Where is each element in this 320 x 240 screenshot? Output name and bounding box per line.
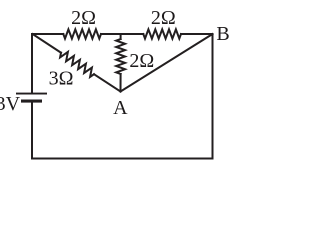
wire left lower (battery negative to bottom-left corner) — [31, 103, 33, 159]
svg-text:2Ω: 2Ω — [151, 7, 176, 29]
wire diagonal from top-left corner to 3ohm resistor — [33, 34, 62, 53]
battery V1 positive plate (long) — [16, 93, 47, 95]
battery V1 negative plate (short thick) — [21, 100, 42, 103]
wire left upper (top-left corner to battery positive) — [31, 34, 34, 93]
wire right side — [212, 34, 214, 159]
wire diagonal 3ohm resistor to node A — [94, 74, 121, 91]
svg-text:2Ω: 2Ω — [129, 50, 154, 72]
wire top-left segment — [33, 33, 64, 35]
wire top-right segment to corner B — [181, 33, 213, 35]
svg-text:2Ω: 2Ω — [71, 7, 96, 29]
wire top-middle segment — [101, 33, 143, 35]
svg-text:3V: 3V — [0, 93, 21, 115]
svg-text:A: A — [113, 97, 128, 119]
wire diagonal node A to corner B — [121, 34, 213, 92]
svg-text:3Ω: 3Ω — [49, 68, 74, 90]
resistor R3 2ohm middle vertical: top lead — [120, 34, 122, 39]
resistor R1 2ohm top-left zigzag — [63, 29, 101, 38]
resistor R3 zigzag — [116, 39, 125, 74]
svg-text:B: B — [216, 23, 229, 45]
resistor R2 2ohm top-right zigzag — [143, 29, 181, 38]
resistor R4 3ohm diagonal zigzag — [60, 52, 94, 77]
resistor R3 bottom lead to node A — [120, 74, 122, 92]
wire bottom — [33, 158, 213, 160]
